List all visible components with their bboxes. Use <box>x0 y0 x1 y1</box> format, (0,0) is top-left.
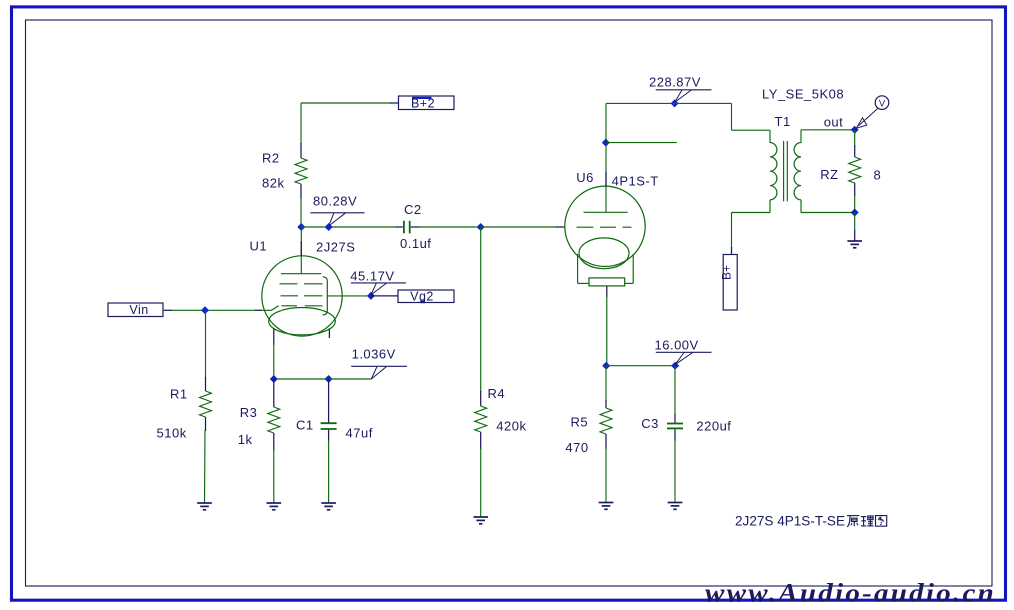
capacitor C3 <box>667 366 683 441</box>
svg-text:R4: R4 <box>488 386 506 401</box>
node Vin / R1 <box>201 306 209 314</box>
svg-text:out: out <box>824 115 844 130</box>
transformer T1 secondary winding <box>794 143 801 200</box>
capacitor C1 <box>321 379 337 441</box>
tube U1 envelope <box>262 256 342 336</box>
node plate U1 (junction) <box>297 223 305 231</box>
wire R2 top vertical <box>300 103 302 144</box>
svg-text:RZ: RZ <box>820 167 838 182</box>
resistor R2 <box>295 143 307 199</box>
svg-text:V: V <box>879 98 886 109</box>
node 228.87V <box>671 99 679 107</box>
ground R3 <box>267 503 282 510</box>
wire RZ bottom to ground <box>854 213 856 231</box>
wire R4 node to U6 grid <box>481 226 557 228</box>
svg-text:T1: T1 <box>775 114 791 129</box>
wire to Vg2 port <box>371 295 398 297</box>
port Vin <box>108 303 163 317</box>
probe V line <box>859 109 878 126</box>
ground C1 <box>321 503 336 510</box>
wire to 1.036V probe <box>329 378 372 380</box>
wire R5 bottom <box>605 448 607 502</box>
svg-text:2J27S 4P1S-T-SE: 2J27S 4P1S-T-SE <box>735 513 845 529</box>
svg-text:1k: 1k <box>238 432 253 447</box>
tube U6 plate <box>584 211 628 213</box>
title CJK 原 <box>847 516 859 527</box>
transformer T1 primary winding <box>770 143 777 200</box>
probe V meter <box>875 96 889 110</box>
svg-text:C3: C3 <box>641 416 659 431</box>
wire secondary bottom <box>800 200 802 213</box>
tube U1 cathode pin <box>273 328 275 379</box>
voltage label 1.036V pointer <box>351 366 407 379</box>
node cathode R5 <box>602 362 610 370</box>
svg-text:2J27S: 2J27S <box>316 240 355 255</box>
tube U1 plate pin <box>300 227 302 274</box>
node screen stub <box>602 139 610 147</box>
svg-text:R1: R1 <box>170 387 188 402</box>
svg-text:80.28V: 80.28V <box>313 194 357 209</box>
svg-text:LY_SE_5K08: LY_SE_5K08 <box>762 87 844 102</box>
wire cathode bus <box>274 378 329 380</box>
ground R1 <box>197 503 212 510</box>
svg-text:220uf: 220uf <box>696 419 731 434</box>
tube U1 plate <box>281 273 321 275</box>
tube U6 heater box <box>589 278 625 286</box>
svg-text:47uf: 47uf <box>346 426 373 441</box>
tube U1 g3 stub pin <box>328 329 330 339</box>
tube U1 cathode dome <box>269 308 336 335</box>
wire screen stub <box>606 142 677 144</box>
wire C2 to R4 node <box>411 226 419 228</box>
wire primary bottom to B+ <box>769 200 771 213</box>
ground R4 <box>473 517 488 524</box>
probe arrowhead <box>856 118 867 128</box>
svg-text:U6: U6 <box>576 170 594 185</box>
wire R2 bottom to plate node <box>300 198 302 227</box>
wire R4 bottom <box>480 448 482 517</box>
svg-text:C2: C2 <box>404 202 422 217</box>
voltage label 45.17V pointer <box>351 283 406 295</box>
wire plate to transformer <box>606 102 732 104</box>
svg-text:B+: B+ <box>720 265 734 280</box>
svg-text:www.Audio-audio.cn: www.Audio-audio.cn <box>705 579 996 608</box>
tube U1 screen bar <box>323 277 328 315</box>
wire R1 bottom <box>204 430 207 503</box>
tube U6 cathode side leads <box>578 254 634 283</box>
svg-text:R5: R5 <box>571 415 589 430</box>
ground RZ <box>847 241 862 248</box>
svg-text:420k: 420k <box>496 419 526 434</box>
ground C3 <box>668 503 683 510</box>
node 80.28V <box>325 223 333 231</box>
resistor R1 <box>200 377 212 431</box>
node cathode C1 <box>325 375 333 383</box>
voltage label 228.87V pointer <box>656 90 712 103</box>
resistor R5 <box>600 366 612 449</box>
tube U6 plate pin <box>605 103 607 212</box>
svg-text:Vin: Vin <box>129 303 148 317</box>
node out <box>851 126 859 134</box>
tube U1 grid dashes row2 <box>281 295 323 297</box>
svg-text:B+2: B+2 <box>411 97 435 111</box>
node cathode R3 <box>270 375 278 383</box>
svg-text:R3: R3 <box>240 405 258 420</box>
tube U6 grid dashes <box>577 226 632 228</box>
wire secondary top to out <box>800 130 802 143</box>
svg-text:45.17V: 45.17V <box>350 269 394 284</box>
tube U1 grid dashes row1 <box>280 283 323 285</box>
wire C1 bottom <box>328 440 330 503</box>
tube U6 cathode dome <box>579 238 629 269</box>
svg-text:Vg2: Vg2 <box>410 290 434 304</box>
svg-text:470: 470 <box>565 440 588 455</box>
ground R5 <box>599 503 614 510</box>
node Vg2 <box>367 292 375 300</box>
title CJK 理 <box>861 516 874 526</box>
svg-text:228.87V: 228.87V <box>649 75 701 90</box>
svg-text:4P1S-T: 4P1S-T <box>612 174 659 189</box>
tube U1 screen lead <box>327 295 346 297</box>
wire pin to B+2 port <box>390 102 399 104</box>
svg-text:1.036V: 1.036V <box>352 347 396 362</box>
port B+2 <box>399 96 455 111</box>
svg-text:U1: U1 <box>250 239 268 254</box>
wire C3 bottom <box>674 440 676 502</box>
tube U6 envelope <box>565 186 645 266</box>
svg-text:R2: R2 <box>262 151 280 166</box>
resistor RZ <box>849 130 861 213</box>
port B+ <box>720 255 738 311</box>
svg-text:C1: C1 <box>296 418 314 433</box>
wire plate node to C2 <box>301 226 397 228</box>
resistor R3 <box>268 379 280 450</box>
voltage label 80.28V pointer <box>310 213 364 226</box>
wire R1 top <box>205 310 207 378</box>
svg-text:0.1uf: 0.1uf <box>400 236 431 251</box>
svg-text:82k: 82k <box>262 176 284 191</box>
wire B+2 feed horizontal <box>301 102 391 104</box>
svg-text:8: 8 <box>874 168 882 183</box>
node RZ bottom <box>851 209 859 217</box>
title CJK 图 <box>876 516 887 527</box>
node cathode C3 <box>671 362 679 370</box>
svg-text:16.00V: 16.00V <box>655 338 699 353</box>
transformer T1 core <box>784 141 788 201</box>
port Vg2 <box>398 290 454 304</box>
resistor R4 <box>475 227 487 449</box>
wire cathode bus U6 <box>606 365 675 367</box>
tube U1 grid dashes row3 <box>282 305 323 307</box>
svg-text:510k: 510k <box>157 426 187 441</box>
tube U6 cathode pin <box>606 286 608 366</box>
capacitor C2 <box>404 221 410 234</box>
node R4 top <box>477 223 485 231</box>
voltage label 16.00V pointer <box>656 352 712 364</box>
wire Vin to grid <box>164 309 172 311</box>
tube U1 grid lead bend <box>262 306 279 311</box>
wire R3 bottom <box>273 449 275 503</box>
